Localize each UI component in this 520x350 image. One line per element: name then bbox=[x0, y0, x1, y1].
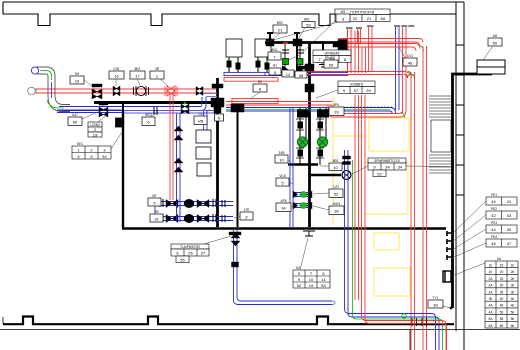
label MT 5 bbox=[148, 194, 168, 206]
long red risers capped top bbox=[403, 27, 415, 350]
table KZ bbox=[293, 238, 330, 288]
table WYB8JA5 bbox=[313, 50, 351, 63]
red drop from top pair to bus bbox=[355, 31, 366, 73]
svg-text:57: 57 bbox=[354, 88, 359, 93]
svg-text:5A: 5A bbox=[381, 16, 386, 21]
svg-text:10: 10 bbox=[309, 277, 314, 282]
V1 junction cluster bbox=[211, 84, 224, 113]
equipment rect A bbox=[196, 130, 211, 143]
table D7BN bbox=[88, 114, 108, 137]
svg-text:10: 10 bbox=[279, 157, 284, 162]
svg-text:34: 34 bbox=[398, 165, 403, 170]
label TY1 39 bbox=[428, 296, 452, 309]
valve marks on right verticals bbox=[343, 156, 351, 165]
valve small on R1 bbox=[113, 86, 120, 96]
pump vertical assembly PA2 bbox=[316, 108, 329, 165]
table TLA bottom bbox=[171, 236, 231, 263]
H2 tee blobs bbox=[266, 39, 328, 62]
svg-text:MT: MT bbox=[152, 194, 157, 198]
label VC5 5 bbox=[276, 174, 293, 186]
svg-text:42: 42 bbox=[491, 213, 496, 218]
boiler B1 bbox=[226, 39, 242, 57]
red riser pair far right bbox=[423, 46, 427, 350]
label W1 3 bbox=[288, 10, 350, 60]
svg-text:AH: AH bbox=[493, 34, 498, 38]
blue bus extension right bbox=[265, 72, 348, 75]
PT2 symbols bbox=[160, 214, 225, 223]
red pipe R2 right of V1 bbox=[226, 102, 332, 106]
svg-text:35: 35 bbox=[500, 290, 504, 294]
svg-text:TLA/FB/S7/92: TLA/FB/S7/92 bbox=[180, 245, 200, 249]
pump vertical assembly PA1 bbox=[296, 108, 309, 165]
label VB8 12 bbox=[282, 70, 294, 77]
label WS 52 bbox=[298, 18, 315, 41]
svg-text:C/O: C/O bbox=[333, 185, 339, 189]
label 8RC 21 bbox=[272, 21, 287, 40]
svg-text:5b: 5b bbox=[511, 310, 515, 314]
svg-text:59: 59 bbox=[329, 62, 334, 67]
svg-text:W1: W1 bbox=[341, 10, 346, 14]
red top fat pipe band inner bbox=[348, 44, 420, 51]
red pair elbow bottom right bbox=[362, 95, 447, 350]
svg-text:R7: R7 bbox=[273, 64, 277, 68]
svg-text:54: 54 bbox=[102, 154, 107, 159]
blue pipe B2 lower bbox=[57, 110, 216, 113]
heavy manifold H1 bbox=[94, 101, 222, 104]
svg-text:22: 22 bbox=[353, 16, 358, 21]
svg-text:O2: O2 bbox=[198, 112, 202, 116]
yellow room zone 4 bbox=[374, 268, 410, 296]
heavy pipe right: to exterior connector bbox=[453, 74, 493, 308]
red main pipe R1 bbox=[28, 87, 216, 95]
pump circle P5 bbox=[342, 171, 351, 180]
equipment rect B bbox=[196, 147, 211, 159]
label AH 50 bbox=[483, 34, 502, 60]
label R7 5 bbox=[269, 64, 281, 75]
svg-text:6b: 6b bbox=[511, 324, 515, 328]
flange pair on B2 bbox=[154, 107, 157, 115]
svg-text:53: 53 bbox=[321, 283, 326, 288]
stair hatch group lower bbox=[429, 155, 451, 173]
label AH21 36 bbox=[313, 202, 344, 215]
svg-text:WYB8JA5: WYB8JA5 bbox=[325, 51, 340, 55]
valve on R1 near V1 bbox=[196, 87, 203, 96]
yellow zone mid bbox=[333, 95, 365, 225]
V4 cluster blob bbox=[231, 104, 244, 112]
svg-text:47: 47 bbox=[507, 241, 512, 246]
boiler B1 piping bbox=[227, 57, 240, 72]
svg-text:26: 26 bbox=[188, 251, 193, 256]
V2 tee blobs bbox=[298, 64, 314, 92]
wall bottom thick line with bumps bbox=[3, 317, 454, 325]
svg-text:KE1: KE1 bbox=[77, 142, 83, 146]
label 8K2 17 bbox=[130, 67, 145, 85]
pump train PT2 bbox=[158, 217, 233, 221]
blue bus under boilers bbox=[224, 72, 265, 75]
inlet elbow pipe with green core bbox=[31, 67, 70, 112]
red drop pair at 348 bbox=[346, 28, 353, 73]
svg-text:10: 10 bbox=[333, 165, 338, 170]
boiler B2 bbox=[255, 39, 271, 57]
vertical assembly at 300 bbox=[297, 44, 304, 74]
H1 stub to room wall bbox=[122, 104, 124, 118]
svg-text:WS.: WS. bbox=[304, 18, 310, 22]
label C/O 52 bbox=[313, 185, 343, 198]
svg-text:R9: R9 bbox=[154, 210, 158, 214]
svg-text:PE4: PE4 bbox=[491, 235, 497, 239]
svg-text:17: 17 bbox=[135, 73, 140, 78]
red top fat pipe band bbox=[338, 39, 423, 47]
svg-text:8RC: 8RC bbox=[277, 21, 284, 25]
label O2 VB bbox=[194, 109, 210, 125]
blue pipe bottom run bbox=[234, 230, 336, 305]
heavy manifold H2 bbox=[265, 41, 338, 44]
blue pipe B1 bbox=[59, 107, 201, 111]
blue vertical 233 valve cluster below wall bbox=[229, 232, 241, 267]
svg-text:60: 60 bbox=[500, 324, 504, 328]
table ICQ8BD bbox=[316, 81, 375, 98]
blue drops to equipment bbox=[204, 111, 208, 130]
svg-text:45: 45 bbox=[500, 304, 504, 308]
table KE1 bbox=[72, 132, 122, 159]
wall bottom thin line bbox=[0, 317, 520, 350]
table bA bbox=[452, 261, 518, 328]
label X7E Z bbox=[234, 208, 253, 220]
svg-text:TSJRT/P2/UKYB: TSJRT/P2/UKYB bbox=[350, 10, 374, 14]
label PE6 10 bbox=[320, 159, 342, 171]
table top TSJRT bbox=[266, 9, 390, 42]
room left thick wall bbox=[122, 110, 124, 228]
lower pump LP1 symbols bbox=[293, 191, 312, 198]
svg-text:55: 55 bbox=[500, 317, 504, 321]
pump PA2 green circle bbox=[317, 137, 327, 147]
green vertical right zone bbox=[353, 160, 443, 350]
wall right double line bbox=[456, 2, 464, 350]
vertical assembly at 285 bbox=[282, 43, 289, 75]
label CH1 16 bbox=[109, 67, 124, 86]
room bottom thick wall bbox=[122, 227, 446, 229]
valve on red R1 main bbox=[92, 84, 102, 99]
svg-text:2b: 2b bbox=[511, 277, 515, 281]
svg-text:50: 50 bbox=[500, 310, 504, 314]
svg-text:AP8: AP8 bbox=[280, 199, 286, 203]
svg-text:30: 30 bbox=[500, 284, 504, 288]
svg-text:44: 44 bbox=[491, 199, 496, 204]
svg-text:WCL: WCL bbox=[271, 48, 278, 52]
svg-text:60: 60 bbox=[73, 120, 78, 125]
blue pipe hatch marks bbox=[340, 106, 394, 108]
svg-text:16: 16 bbox=[114, 73, 119, 78]
yellow room zone 1 bbox=[369, 118, 409, 151]
riser caps bbox=[394, 25, 414, 27]
red vertical at 172 bbox=[170, 93, 173, 200]
heavy pump line H3 bbox=[310, 174, 341, 177]
svg-text:29: 29 bbox=[366, 88, 371, 93]
svg-text:SH: SH bbox=[75, 72, 80, 76]
svg-text:IC/Q8B'D: IC/Q8B'D bbox=[350, 82, 364, 86]
svg-text:45: 45 bbox=[507, 227, 512, 232]
blue riser capped top bbox=[396, 27, 400, 110]
label XE 48 bbox=[295, 71, 307, 78]
svg-text:52: 52 bbox=[377, 172, 382, 177]
svg-text:41: 41 bbox=[507, 199, 512, 204]
svg-text:34: 34 bbox=[385, 165, 390, 170]
label AP8 34 bbox=[276, 199, 294, 212]
red pipe right segment lower bbox=[328, 105, 406, 117]
svg-text:8PIL: 8PIL bbox=[333, 103, 340, 107]
label SgRD 59 bbox=[318, 56, 338, 68]
label WC2 6 bbox=[142, 112, 158, 126]
blue verticals right zone bbox=[345, 150, 440, 350]
round valve on R1 bbox=[134, 86, 149, 96]
svg-text:20: 20 bbox=[500, 270, 504, 274]
svg-text:12: 12 bbox=[286, 72, 291, 77]
svg-text:21: 21 bbox=[278, 27, 283, 32]
blue pipe B3 right of V1 bbox=[226, 108, 390, 112]
svg-text:39: 39 bbox=[433, 303, 438, 308]
svg-text:55: 55 bbox=[180, 258, 185, 263]
red valve on R1 bbox=[165, 86, 177, 96]
svg-text:S47: S47 bbox=[72, 113, 78, 117]
svg-text:1b: 1b bbox=[511, 264, 515, 268]
svg-text:4b: 4b bbox=[511, 304, 515, 308]
svg-text:3b: 3b bbox=[511, 284, 515, 288]
svg-text:PE3: PE3 bbox=[491, 221, 497, 225]
svg-text:44: 44 bbox=[491, 227, 496, 232]
svg-text:3b: 3b bbox=[489, 297, 493, 301]
red bus horizontal to right elbow bbox=[289, 72, 415, 79]
svg-text:3b: 3b bbox=[511, 290, 515, 294]
boiler B2 piping bbox=[256, 57, 269, 72]
svg-text:1b: 1b bbox=[489, 270, 493, 274]
svg-text:SPWRNBRTCO'D: SPWRNBRTCO'D bbox=[374, 159, 401, 163]
heavy riser stubs on H2 bbox=[267, 33, 323, 73]
valve on B1 blue bbox=[99, 102, 108, 117]
yellow room zone 2 bbox=[365, 162, 408, 214]
PE leader lines bbox=[452, 201, 486, 258]
wall top outer line bbox=[3, 1, 464, 3]
label SH 19 bbox=[70, 72, 92, 86]
label 8PIL 29 bbox=[325, 103, 344, 116]
svg-text:27: 27 bbox=[201, 251, 206, 256]
svg-text:43: 43 bbox=[507, 213, 512, 218]
svg-text:CV1: CV1 bbox=[407, 54, 413, 58]
PT left riser blue bbox=[155, 201, 180, 222]
svg-text:SgRD: SgRD bbox=[327, 56, 336, 60]
blue pipe B1 riser to manifold bbox=[201, 94, 217, 111]
label 3R 1 bbox=[150, 67, 168, 86]
svg-text:CH1: CH1 bbox=[113, 67, 120, 71]
svg-text:PE1: PE1 bbox=[491, 193, 497, 197]
stair landing rectangle bbox=[431, 120, 451, 152]
lower pump run LP2 bbox=[293, 204, 309, 208]
PT1 symbols bbox=[160, 199, 225, 208]
svg-text:PE2: PE2 bbox=[491, 207, 497, 211]
exterior connector box AH bbox=[477, 60, 505, 74]
svg-text:19: 19 bbox=[93, 132, 98, 137]
svg-text:36: 36 bbox=[334, 209, 339, 214]
svg-text:5b: 5b bbox=[511, 317, 515, 321]
heavy cross H5 at pumps bbox=[288, 163, 318, 165]
lower pump LP2 symbols bbox=[293, 202, 312, 209]
label CV1 48 bbox=[399, 47, 417, 66]
valve on B2 blue with green bbox=[181, 102, 189, 114]
svg-text:8K2: 8K2 bbox=[135, 67, 141, 71]
svg-text:VB: VB bbox=[198, 119, 204, 124]
wall entry valve at room wall top bbox=[116, 118, 125, 127]
svg-text:52: 52 bbox=[334, 192, 339, 197]
heavy vertical V2 bbox=[308, 42, 311, 227]
green elbow marks bbox=[401, 45, 424, 118]
label WC1 7 bbox=[268, 48, 284, 60]
yellow room zone 3 bbox=[374, 233, 399, 250]
cap at stub 323 bbox=[319, 65, 328, 68]
red mid verticals to bottom bbox=[355, 95, 359, 300]
svg-text:4b: 4b bbox=[511, 297, 515, 301]
label S47 60 bbox=[68, 111, 100, 126]
red bus under boilers bbox=[224, 78, 278, 82]
svg-text:VC5: VC5 bbox=[279, 174, 285, 178]
svg-text:29: 29 bbox=[334, 110, 339, 115]
svg-text:34: 34 bbox=[281, 206, 286, 211]
label R9 2k bbox=[150, 210, 168, 222]
label 3VB 10 bbox=[275, 151, 291, 163]
green centerline right run bbox=[226, 108, 390, 110]
svg-text:25: 25 bbox=[500, 277, 504, 281]
wall sleeve big symbol bbox=[443, 271, 451, 282]
svg-text:2k: 2k bbox=[154, 216, 158, 221]
V1 cluster small box bbox=[215, 114, 224, 121]
svg-text:46: 46 bbox=[491, 241, 496, 246]
svg-text:R2: R2 bbox=[258, 80, 262, 84]
svg-text:52: 52 bbox=[306, 23, 311, 28]
green circle marker bottom bbox=[402, 314, 406, 318]
wall sleeve ticks right bbox=[447, 231, 452, 260]
pump PA1 green circle bbox=[297, 137, 307, 147]
elbows blue B3 to risers bbox=[390, 108, 396, 114]
heavy vertical V4 bbox=[237, 104, 239, 227]
valves on vertical 178 bbox=[174, 126, 183, 172]
stair hatch group upper bbox=[429, 96, 451, 117]
svg-text:19: 19 bbox=[309, 283, 314, 288]
table SPWRN bbox=[352, 158, 451, 177]
anchor symbol below wall bbox=[303, 231, 315, 236]
lower pump run LP1 bbox=[293, 193, 309, 197]
svg-text:50: 50 bbox=[493, 41, 498, 46]
tables PE right side bbox=[486, 197, 517, 247]
red manifold box lower bbox=[232, 99, 278, 104]
pump train PT1 bbox=[158, 202, 233, 206]
svg-text:KZ: KZ bbox=[296, 266, 300, 270]
svg-text:AH21: AH21 bbox=[333, 202, 341, 206]
svg-text:48: 48 bbox=[408, 60, 413, 65]
svg-text:40: 40 bbox=[500, 297, 504, 301]
svg-text:19: 19 bbox=[75, 78, 80, 83]
crossing ticks on bottom band bbox=[412, 318, 427, 326]
red riser at 370 bbox=[367, 26, 374, 72]
svg-text:3R: 3R bbox=[155, 67, 160, 71]
blue vertical at 291 bbox=[290, 108, 293, 228]
svg-text:3VB: 3VB bbox=[278, 151, 284, 155]
svg-text:15: 15 bbox=[500, 264, 504, 268]
heavy vertical V1 bbox=[216, 78, 219, 227]
red stub riser at 358 bbox=[356, 28, 362, 43]
valve blob on red main bbox=[333, 40, 348, 50]
svg-text:21: 21 bbox=[367, 16, 372, 21]
svg-text:1b: 1b bbox=[489, 264, 493, 268]
label W2 B bbox=[250, 80, 267, 99]
expansion tank rect bbox=[197, 163, 211, 176]
wall top inner line with notches bbox=[3, 2, 456, 26]
svg-text:48: 48 bbox=[299, 73, 304, 78]
svg-text:2b: 2b bbox=[511, 270, 515, 274]
svg-text:8E6: 8E6 bbox=[333, 159, 339, 163]
blue vertical at 178 bbox=[177, 113, 181, 222]
svg-text:52: 52 bbox=[297, 283, 302, 288]
svg-text:X7E: X7E bbox=[243, 208, 249, 212]
svg-text:TY1: TY1 bbox=[433, 296, 439, 300]
